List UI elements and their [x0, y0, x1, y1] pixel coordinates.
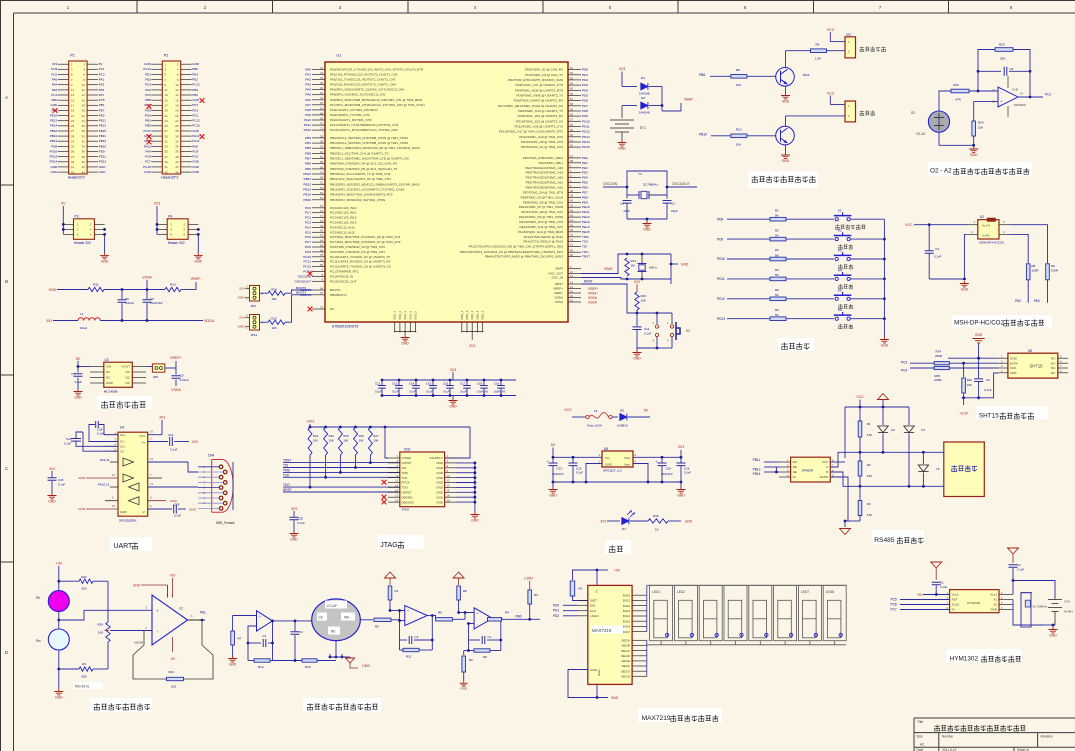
net pin 3V3 inductor row	[46, 319, 78, 323]
feedback loop R21 100	[133, 619, 213, 689]
svg-text:GND: GND	[881, 344, 889, 348]
wire 5V to VIN	[77, 365, 90, 368]
svg-text:C2: C2	[1017, 563, 1021, 567]
svg-text:C30: C30	[298, 517, 304, 521]
gas sensor element Rb	[36, 591, 69, 612]
svg-text:PA0/WKUP/US2_CTS/ADC123_IN0/T2: PA0/WKUP/US2_CTS/ADC123_IN0/T2_CH1_ETR/T…	[330, 67, 424, 71]
svg-text:PA9 11: PA9 11	[100, 458, 110, 462]
svg-text:0.1uF: 0.1uF	[375, 390, 382, 394]
net label PD13	[717, 317, 770, 321]
svg-text:15: 15	[165, 98, 169, 102]
svg-text:PB3/JTDO/SPI3_SCK/I2S3_CK @ PB: PB3/JTDO/SPI3_SCK/I2S3_CK @ PB3/TRACESWO…	[460, 250, 563, 254]
wire NRST net	[581, 280, 672, 315]
svg-text:PD12: PD12	[717, 297, 725, 301]
net labels PC3 PC4	[901, 361, 934, 373]
svg-text:R11: R11	[406, 655, 412, 659]
svg-text:1N4148: 1N4148	[639, 92, 650, 96]
svg-text:SHT15: SHT15	[979, 413, 999, 420]
svg-text:C1: C1	[940, 581, 944, 585]
svg-text:C16: C16	[443, 382, 449, 386]
svg-text:15: 15	[71, 98, 75, 102]
svg-text:B: B	[5, 279, 8, 284]
svg-text:37: 37	[165, 155, 169, 159]
ground symbol for P3	[100, 253, 109, 264]
svg-text:40: 40	[175, 160, 179, 164]
svg-text:K3: K3	[838, 249, 842, 253]
svg-text:PE14: PE14	[50, 124, 58, 128]
svg-text:U1B: U1B	[1012, 88, 1018, 92]
svg-text:GND: GND	[597, 670, 601, 676]
caption UART port	[110, 537, 152, 551]
svg-text:43: 43	[165, 170, 169, 174]
connector P4 Header 3X2	[157, 214, 198, 245]
svg-text:PB11/I2C2_SDA/USART3_RX @ TIM2: PB11/I2C2_SDA/USART3_RX @ TIM2_CH4	[330, 177, 391, 181]
svg-text:PC0: PC0	[145, 83, 151, 87]
svg-text:44: 44	[82, 170, 86, 174]
capacitor C2 22pF	[663, 201, 678, 220]
transistor Q2 9014	[776, 126, 795, 145]
svg-text:3V3: 3V3	[239, 287, 245, 291]
svg-text:PB12: PB12	[303, 182, 311, 186]
svg-text:TCK: TCK	[283, 473, 290, 477]
svg-text:JP6: JP6	[153, 375, 159, 379]
svg-text:R24: R24	[97, 623, 103, 627]
svg-text:36: 36	[175, 150, 179, 154]
svg-text:R5: R5	[375, 625, 379, 629]
svg-text:38: 38	[570, 189, 573, 193]
svg-text:CN1: CN1	[404, 448, 411, 452]
svg-text:C4: C4	[299, 630, 303, 634]
svg-text:DATA: DATA	[1010, 361, 1019, 365]
svg-text:R9: R9	[483, 655, 487, 659]
resistor R7 CO	[231, 616, 257, 657]
svg-text:AD682: AD682	[134, 641, 144, 645]
svg-text:VSSA: VSSA	[588, 301, 598, 305]
svg-text:R8: R8	[736, 68, 740, 72]
svg-text:GND: GND	[643, 228, 651, 232]
net label TDI JTAG wire	[283, 455, 400, 469]
svg-text:28: 28	[175, 129, 179, 133]
wire diodes to VBAT	[661, 87, 694, 112]
svg-text:PC12/UART5_TX/SDIO_CK @ USART3: PC12/UART5_TX/SDIO_CK @ USART3_CK	[330, 265, 391, 269]
svg-text:100: 100	[171, 685, 176, 689]
svg-text:10K: 10K	[736, 142, 741, 146]
svg-text:U3: U3	[105, 358, 109, 362]
svg-text:GND: GND	[681, 263, 689, 267]
RS485 bottom ground	[840, 520, 861, 535]
svg-text:PE4: PE4	[192, 72, 198, 76]
svg-text:22: 22	[570, 294, 573, 298]
svg-text:P3: P3	[75, 214, 79, 218]
svg-text:C18: C18	[477, 382, 483, 386]
svg-text:PC13: PC13	[143, 67, 151, 71]
svg-text:PC14/OSC32_IN: PC14/OSC32_IN	[330, 274, 353, 278]
svg-text:2.85V: 2.85V	[524, 577, 533, 581]
capacitor C2 0.1uF HYM right	[1009, 563, 1025, 582]
svg-text:3V3: 3V3	[291, 507, 297, 511]
svg-text:10K: 10K	[359, 439, 364, 443]
svg-text:PE11: PE11	[582, 210, 590, 214]
resistor R34 200R	[934, 350, 949, 365]
svg-text:R12: R12	[170, 283, 176, 287]
op-amp power pins gas	[133, 574, 176, 662]
capacitor C19 10uF/16V	[494, 379, 506, 397]
svg-text:31: 31	[165, 139, 169, 143]
svg-text:PA11: PA11	[144, 144, 151, 148]
wire K6 to ground rail	[850, 317, 886, 320]
svg-text:PE13/FSMC_D10 @ TIM1_CH3: PE13/FSMC_D10 @ TIM1_CH3	[519, 220, 563, 224]
svg-text:K3: K3	[686, 329, 690, 333]
svg-text:U5: U5	[1028, 349, 1032, 353]
key switch K1	[834, 209, 852, 221]
resistor R22 47R	[951, 83, 998, 102]
wire K1 to ground rail	[850, 218, 884, 220]
svg-text:PD1: PD1	[192, 114, 198, 118]
svg-text:PE15: PE15	[99, 129, 107, 133]
svg-text:GND: GND	[549, 494, 557, 498]
svg-text:K2: K2	[838, 229, 842, 233]
svg-text:45: 45	[570, 223, 573, 227]
svg-text:VCC: VCC	[905, 223, 913, 227]
svg-text:HYM1302: HYM1302	[967, 601, 981, 605]
svg-text:17: 17	[71, 104, 75, 108]
svg-text:PB10: PB10	[699, 133, 707, 137]
oxygen sensor S3 O2-A2	[911, 111, 950, 136]
svg-text:DIG5: DIG5	[623, 619, 631, 623]
key name CJK K2	[838, 244, 853, 249]
svg-text:PD10: PD10	[582, 119, 590, 123]
junction dots P3	[62, 223, 106, 236]
svg-text:C22: C22	[66, 437, 72, 441]
svg-text:GND: GND	[436, 481, 444, 485]
svg-text:22: 22	[175, 114, 179, 118]
net label NRST JTAG wire	[283, 488, 400, 492]
wire R23 rails	[977, 50, 1032, 98]
svg-text:PE12: PE12	[50, 119, 58, 123]
svg-text:86: 86	[570, 92, 573, 96]
svg-text:GND: GND	[436, 461, 444, 465]
pushbutton K3 reset	[653, 313, 691, 348]
connector P1 Header22*2	[50, 54, 107, 180]
svg-text:3V3: 3V3	[634, 280, 640, 284]
svg-text:18: 18	[447, 493, 450, 497]
svg-text:PC2: PC2	[51, 72, 57, 76]
resistor R9 1.5K	[811, 43, 846, 61]
svg-text:PE13: PE13	[99, 124, 107, 128]
power +5V MAX7219	[596, 569, 621, 586]
svg-text:Ni-MH: Ni-MH	[1064, 610, 1073, 614]
svg-text:PB15: PB15	[303, 198, 311, 202]
svg-text:Yo-Rx: Yo-Rx	[982, 234, 991, 238]
svg-text:GND: GND	[51, 103, 59, 107]
caption regulator	[605, 540, 631, 554]
power label +3V3 JTAG	[306, 420, 314, 428]
buzzer connector	[845, 101, 856, 122]
svg-text:14: 14	[1020, 92, 1023, 96]
svg-text:PA7: PA7	[99, 93, 105, 97]
ground symbol R7	[228, 656, 237, 667]
svg-text:5K: 5K	[775, 273, 779, 277]
svg-text:PC8: PC8	[51, 67, 57, 71]
caption HYM1302 circuit diagram	[946, 649, 1022, 663]
svg-text:R9: R9	[816, 43, 820, 47]
svg-text:PD0: PD0	[582, 68, 588, 72]
svg-text:R25: R25	[343, 434, 349, 438]
svg-text:Vcc1: Vcc1	[990, 593, 997, 597]
JTAG ground column	[456, 462, 476, 513]
wire pin13 to DB9	[148, 482, 198, 487]
svg-text:NC: NC	[1051, 371, 1056, 375]
svg-text:VDDA: VDDA	[555, 296, 564, 300]
svg-text:SEGA: SEGA	[621, 639, 631, 643]
net label PD11	[717, 277, 770, 281]
svg-text:17: 17	[395, 493, 398, 497]
svg-text:RE: RE	[793, 465, 797, 469]
svg-text:9014: 9014	[803, 73, 810, 77]
capacitor C7 0.1uF	[71, 367, 82, 390]
net labels PD0 PD1 PD2	[553, 603, 578, 618]
svg-text:GND: GND	[78, 476, 86, 480]
svg-text:0.1uF: 0.1uF	[170, 448, 178, 452]
svg-text:10K: 10K	[343, 439, 348, 443]
svg-text:DIG0: DIG0	[623, 593, 631, 597]
svg-text:0.1uF: 0.1uF	[392, 390, 399, 394]
svg-text:PD8: PD8	[717, 217, 723, 221]
svg-text:V+: V+	[142, 441, 146, 445]
svg-text:19: 19	[570, 298, 573, 302]
power triangle RS485	[878, 394, 889, 408]
key name CJK K5	[838, 304, 853, 309]
resistor R26 10K JTAG	[354, 427, 365, 455]
svg-text:NC: NC	[1051, 356, 1056, 360]
svg-text:16: 16	[320, 209, 323, 213]
svg-text:PB1/ADC12_IN9/TIM3_CH4/TIM8_CH: PB1/ADC12_IN9/TIM3_CH4/TIM8_CH3N @ TIM1_…	[330, 141, 408, 145]
svg-text:VSS_2: VSS_2	[398, 311, 402, 320]
svg-text:8MHz: 8MHz	[649, 266, 658, 270]
svg-text:46: 46	[570, 228, 573, 232]
svg-text:TDO: TDO	[582, 250, 589, 254]
svg-text:36: 36	[320, 140, 323, 144]
svg-text:VDD_5: VDD_5	[481, 310, 485, 320]
U1 right pins JTAG and power	[460, 233, 590, 304]
svg-text:PC1: PC1	[1045, 93, 1051, 97]
svg-text:PA10: PA10	[304, 118, 312, 122]
svg-text:GND: GND	[189, 508, 197, 512]
wire HYM Vcc1 to battery	[1013, 581, 1055, 598]
svg-text:61: 61	[570, 138, 573, 142]
power label +3V gas	[56, 562, 63, 591]
svg-text:MAX7219: MAX7219	[642, 715, 671, 722]
svg-text:PD7: PD7	[582, 104, 588, 108]
svg-text:16: 16	[150, 430, 153, 434]
svg-text:96: 96	[320, 165, 323, 169]
svg-text:29: 29	[71, 134, 75, 138]
sensor bottom taps	[329, 641, 347, 659]
ground pin8	[148, 496, 178, 503]
svg-text:17: 17	[165, 104, 169, 108]
svg-text:PD12: PD12	[50, 155, 58, 159]
svg-text:PE8: PE8	[582, 195, 588, 199]
svg-text:47K: 47K	[867, 513, 872, 517]
svg-text:GND: GND	[78, 507, 86, 511]
svg-text:Header 3X2: Header 3X2	[168, 241, 185, 245]
power label VREF- right	[181, 277, 202, 290]
svg-text:R17: R17	[271, 317, 277, 321]
svg-text:560: 560	[81, 587, 86, 591]
svg-text:VCC: VCC	[139, 434, 146, 438]
svg-text:B: B	[826, 470, 828, 474]
wire Rb to Rw	[57, 612, 60, 629]
svg-text:3V3: 3V3	[450, 368, 456, 372]
svg-text:100R: 100R	[1032, 269, 1039, 273]
feedback C1 R9	[467, 617, 502, 659]
svg-text:PA7/SPI1_MOSI/TIM8_CH1N/ADC12_: PA7/SPI1_MOSI/TIM8_CH1N/ADC12_IN7/TIM3_C…	[330, 103, 425, 107]
svg-text:C23: C23	[557, 467, 563, 471]
svg-text:GND: GND	[436, 466, 444, 470]
svg-text:PA4/SPI1_NSS/USART2_CK/DAC_OUT: PA4/SPI1_NSS/USART2_CK/DAC_OUT1/ADC12_IN…	[330, 88, 404, 92]
wire A line	[830, 451, 944, 467]
svg-text:44: 44	[570, 218, 573, 222]
svg-text:GND: GND	[449, 405, 457, 409]
svg-text:VTREF: VTREF	[402, 456, 412, 460]
svg-text:PD10: PD10	[717, 257, 725, 261]
capacitor C6 10uF/16V	[143, 290, 163, 321]
transistor Q1 9014	[776, 68, 810, 87]
svg-text:PD5/FSMC_NWE @ USART2_TX: PD5/FSMC_NWE @ USART2_TX	[516, 93, 563, 97]
display SEG bus	[646, 640, 648, 676]
svg-text:0.1uF: 0.1uF	[1017, 568, 1024, 572]
svg-text:PE7: PE7	[582, 190, 588, 194]
svg-text:PB13: PB13	[753, 468, 761, 472]
svg-text:PD9/FSMC_D14 @ USART3_RX: PD9/FSMC_D14 @ USART3_RX	[518, 114, 563, 118]
svg-text:84: 84	[570, 82, 573, 86]
ground symbol HYM1302	[1043, 624, 1058, 638]
svg-text:88: 88	[570, 102, 573, 106]
svg-text:MSH-DP-HC/CO2: MSH-DP-HC/CO2	[979, 241, 1004, 245]
svg-text:18: 18	[320, 219, 323, 223]
svg-text:R3: R3	[82, 662, 86, 666]
capacitor C15 0.1uF	[426, 379, 437, 397]
svg-text:GND: GND	[605, 462, 613, 466]
svg-text:13: 13	[570, 270, 573, 274]
svg-text:PA12: PA12	[304, 128, 312, 132]
svg-text:C24: C24	[666, 467, 672, 471]
svg-text:PC3: PC3	[901, 361, 907, 365]
svg-text:GND: GND	[238, 296, 246, 300]
svg-text:PD10: PD10	[50, 149, 58, 153]
svg-text:20: 20	[570, 289, 573, 293]
svg-text:PE12: PE12	[582, 215, 590, 219]
svg-text:PE7/FSMC_D4 @ TIM1_ETR: PE7/FSMC_D4 @ TIM1_ETR	[523, 190, 564, 194]
net label VBAT	[604, 267, 614, 271]
ground symbol gas	[54, 689, 63, 700]
key switch K4	[834, 268, 852, 280]
svg-text:81: 81	[570, 66, 573, 70]
svg-text:0.1uF: 0.1uF	[426, 390, 433, 394]
svg-text:GND: GND	[99, 165, 107, 169]
svg-text:RO: RO	[793, 460, 798, 464]
svg-text:PD4: PD4	[582, 88, 588, 92]
svg-text:GND: GND	[1049, 634, 1057, 638]
caption keyboard circuit	[778, 338, 814, 351]
svg-text:PC0/ADC123_IN10: PC0/ADC123_IN10	[330, 206, 357, 210]
svg-text:5K: 5K	[775, 233, 779, 237]
svg-text:GND: GND	[192, 129, 200, 133]
svg-text:PC4/ADC12_IN14: PC4/ADC12_IN14	[330, 225, 355, 229]
svg-text:0.1uF: 0.1uF	[58, 483, 65, 487]
svg-text:PC10/UART4_TX/SDIO_D2 @ USART3: PC10/UART4_TX/SDIO_D2 @ USART3_TX	[330, 255, 390, 259]
svg-text:R26: R26	[967, 378, 973, 382]
wire SHT15 VDD loop	[962, 373, 998, 399]
resistor R30 1K	[648, 514, 693, 532]
svg-text:GND: GND	[460, 687, 468, 691]
svg-text:3V3: 3V3	[239, 316, 245, 320]
svg-text:11: 11	[165, 88, 168, 92]
svg-text:PE6: PE6	[582, 186, 588, 190]
ground symbol regulator left	[549, 482, 558, 498]
svg-text:GND: GND	[677, 494, 685, 498]
capacitor C22 0.1uF charge pump	[64, 432, 118, 451]
svg-text:VDD_4: VDD_4	[475, 310, 479, 320]
svg-text:LED8: LED8	[826, 590, 834, 594]
svg-text:OSC32IN: OSC32IN	[603, 182, 618, 186]
battery BT1	[610, 106, 646, 141]
svg-text:LED7: LED7	[801, 590, 809, 594]
svg-text:98: 98	[570, 159, 573, 163]
resistor R23 20K feedback	[995, 43, 1013, 61]
net label TCK JTAG wire	[283, 455, 400, 479]
svg-text:PC3: PC3	[305, 221, 311, 225]
svg-text:V3: V3	[921, 428, 925, 432]
regulator output rail	[633, 456, 682, 482]
svg-text:PA3: PA3	[1034, 299, 1040, 303]
svg-text:CO-AF: CO-AF	[327, 604, 337, 608]
svg-text:PE0: PE0	[582, 156, 588, 160]
svg-text:GND: GND	[611, 696, 619, 700]
svg-text:PC15/OSC32_OUT: PC15/OSC32_OUT	[330, 279, 357, 283]
svg-text:C1: C1	[488, 635, 492, 639]
svg-text:PD2: PD2	[582, 78, 588, 82]
svg-text:GND: GND	[436, 491, 444, 495]
wire U6 VCC pin	[830, 461, 845, 463]
svg-text:PA11/USART1_CTS/USBDM/CAN_RX/T: PA11/USART1_CTS/USBDM/CAN_RX/TIM1_CH4	[330, 123, 399, 127]
svg-text:VREF-: VREF-	[554, 291, 563, 295]
svg-text:12: 12	[175, 88, 179, 92]
capacitor C13 0.1uF	[392, 379, 403, 397]
svg-text:1K: 1K	[655, 528, 659, 532]
svg-text:NRST: NRST	[283, 488, 292, 492]
svg-text:GND: GND	[782, 159, 790, 163]
svg-text:27: 27	[165, 129, 169, 133]
svg-text:Yo+Tx: Yo+Tx	[982, 224, 991, 228]
svg-text:VSSA: VSSA	[171, 388, 181, 392]
svg-text:PE13: PE13	[582, 220, 590, 224]
svg-text:PB6/I2C1_SCL/TIM4_CH1 @ USART1: PB6/I2C1_SCL/TIM4_CH1 @ USART1_TX	[330, 151, 389, 155]
svg-text:PD9: PD9	[99, 149, 105, 153]
crystal Y1 32.768KHz loop	[626, 171, 669, 199]
resistor R6 CO	[427, 611, 465, 622]
svg-text:0.1uF: 0.1uF	[934, 255, 942, 259]
svg-text:VCC: VCC	[564, 408, 572, 412]
svg-text:R22: R22	[953, 83, 959, 87]
svg-text:PE11/FSMC_D8 @ TIM1_CH2: PE11/FSMC_D8 @ TIM1_CH2	[521, 210, 563, 214]
resistor R12 CO	[248, 621, 274, 669]
svg-text:VBAT: VBAT	[555, 267, 563, 271]
svg-text:PE10: PE10	[50, 114, 58, 118]
svg-text:PE15/FSMC_D12 @ TIM1_BKIN: PE15/FSMC_D12 @ TIM1_BKIN	[518, 230, 563, 234]
net label PB0	[516, 614, 541, 620]
svg-text:69: 69	[320, 116, 323, 120]
